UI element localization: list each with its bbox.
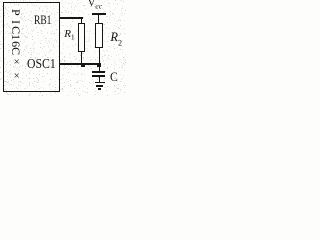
node junction dot A (R1/OSC1) bbox=[81, 63, 85, 67]
pin label RB1 bbox=[34, 14, 51, 27]
wire R2 bottom lead bbox=[99, 48, 100, 64]
capacitor C value label bbox=[110, 70, 118, 83]
IC U1 label x mark 1 bbox=[14, 57, 20, 68]
pin label OSC1 bbox=[27, 58, 56, 72]
wire RB1 pin horizontal bbox=[60, 17, 83, 19]
wire R1 bottom lead bbox=[81, 52, 83, 65]
power Vcc rail bar bbox=[92, 13, 106, 16]
wire Vcc stem bbox=[98, 15, 99, 23]
resistor R2 body bbox=[95, 23, 103, 48]
wire capacitor top lead bbox=[99, 66, 100, 71]
resistor R1 body bbox=[78, 23, 85, 52]
resistor R2 value label bbox=[110, 31, 122, 48]
IC U1 PIC16C6xx box bbox=[3, 2, 60, 92]
capacitor C bottom plate bbox=[92, 75, 105, 77]
IC U1 label x mark 2 bbox=[14, 71, 20, 82]
wire ground stem bbox=[99, 77, 100, 82]
node junction dot B (R2/C/OSC1) bbox=[97, 63, 101, 67]
resistor R1 value label bbox=[64, 29, 74, 42]
ground symbol line 1 bbox=[95, 82, 105, 84]
wire OSC1 horizontal net bbox=[60, 63, 100, 65]
capacitor C top plate bbox=[92, 71, 105, 73]
wire R1 top lead bbox=[81, 17, 83, 24]
ground symbol line 3 bbox=[98, 88, 101, 90]
IC U1 label PIC16C6 (rotated) bbox=[10, 9, 22, 55]
ground symbol line 2 bbox=[96, 85, 102, 87]
power Vcc label bbox=[88, 0, 102, 10]
